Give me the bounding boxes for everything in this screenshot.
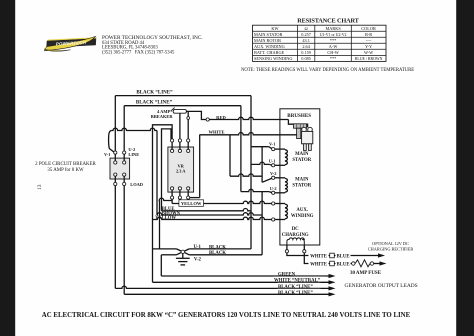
wire black line 2 right drop to U-2 node xyxy=(240,106,242,192)
node generator aux 2 xyxy=(272,218,275,221)
svg-text:A-W: A-W xyxy=(329,44,339,49)
connector VR top pins xyxy=(171,139,190,153)
wire sensing horizontal xyxy=(112,128,157,130)
svg-text:STATOR: STATOR xyxy=(292,158,311,163)
svg-text:BLACK “LINE”: BLACK “LINE” xyxy=(136,90,173,96)
company name line xyxy=(102,35,203,41)
svg-text:0.257: 0.257 xyxy=(301,32,312,37)
label YELLOW lower xyxy=(155,216,176,221)
svg-text:----: ---- xyxy=(366,38,372,43)
resistance chart note xyxy=(241,68,414,73)
label 4 AMP BREAKER xyxy=(151,109,174,119)
label OPTIONAL 12V DC xyxy=(372,241,409,246)
node breaker inner bottom left xyxy=(114,173,117,176)
label V-1 generator xyxy=(269,141,276,146)
svg-text:SENSING WINDING: SENSING WINDING xyxy=(254,56,292,61)
wire VR pin2 riser to breaker xyxy=(179,113,181,139)
wire black output 2 xyxy=(124,292,335,296)
svg-text:NOTE: THESE READINGS WILL VARY: NOTE: THESE READINGS WILL VARY DEPENDING… xyxy=(241,68,414,73)
ground symbol xyxy=(176,254,190,265)
svg-text:***: *** xyxy=(330,56,336,61)
node generator U-2 xyxy=(272,191,275,194)
regulator VR body xyxy=(168,147,194,192)
label 35 AMP for 8 KW xyxy=(47,168,84,173)
wire RED drop to brush ball xyxy=(288,120,307,128)
label MAIN STATOR 1 xyxy=(292,152,311,163)
svg-text:U-1: U-1 xyxy=(269,158,276,163)
node dc charge terminal 2 xyxy=(303,245,306,253)
connector VR bottom pins xyxy=(171,187,190,199)
svg-text:2.3 A: 2.3 A xyxy=(176,169,186,174)
wire black line 1 left drop to breaker V-1 xyxy=(114,96,116,151)
logo POWERTECH xyxy=(44,36,97,51)
node breaker line U-2 xyxy=(123,151,126,154)
address line 1 xyxy=(102,41,145,46)
svg-text:V-2: V-2 xyxy=(270,171,277,176)
svg-text:GENERATOR OUTPUT LEADS: GENERATOR OUTPUT LEADS xyxy=(345,283,418,289)
wire white neutral output xyxy=(153,280,336,284)
label BLUE xyxy=(162,207,175,212)
svg-text:30 AMP FUSE: 30 AMP FUSE xyxy=(350,271,382,276)
wire breaker to red terminal xyxy=(186,111,206,119)
breaker CB1 stems bottom xyxy=(115,176,124,182)
winding dc charging xyxy=(287,238,304,245)
label BRUSHES xyxy=(287,113,311,119)
wire black line 1 load drop xyxy=(114,186,116,289)
svg-text:V-1: V-1 xyxy=(104,152,111,157)
svg-text:LINE: LINE xyxy=(128,152,139,157)
resistance chart title xyxy=(297,17,359,24)
wire blue row1 with arrow xyxy=(334,253,385,257)
label WHITE xyxy=(208,130,224,135)
label GREEN xyxy=(278,270,297,277)
label MAIN STATOR 2 xyxy=(292,177,311,188)
label GENERATOR OUTPUT LEADS xyxy=(345,283,418,289)
right black border bar xyxy=(456,0,474,336)
svg-text:WHITE: WHITE xyxy=(208,130,224,135)
node breaker CB2 output terminal xyxy=(187,117,190,120)
node red terminal xyxy=(206,118,209,121)
svg-text:MARKS: MARKS xyxy=(325,26,341,31)
svg-text:35 AMP for 8 KW: 35 AMP for 8 KW xyxy=(47,168,84,173)
wire WHITE riser from VR pin3 loop xyxy=(199,135,201,198)
svg-text:KW: KW xyxy=(271,26,279,31)
node breaker line V-1 xyxy=(114,151,117,154)
wire yellow bus 1 horizontal xyxy=(172,201,271,203)
left black border bar xyxy=(0,0,15,336)
svg-text:AC ELECTRICAL CIRCUIT FOR 8KW: AC ELECTRICAL CIRCUIT FOR 8KW “C” GENERA… xyxy=(42,312,411,319)
wire sensing curve from breaker V-1 xyxy=(109,131,115,153)
wire black output 1 xyxy=(115,286,335,290)
svg-text:WHITE: WHITE xyxy=(310,262,327,267)
node breaker load right xyxy=(123,182,126,185)
wire V-2 horizontal xyxy=(230,174,262,176)
svg-text:MAIN STATOR: MAIN STATOR xyxy=(254,32,282,37)
label U-2 generator xyxy=(270,186,277,191)
wire sensing drop to brown bus xyxy=(156,131,158,216)
svg-text:CH-W: CH-W xyxy=(327,50,339,55)
svg-text:WHITE: WHITE xyxy=(310,254,327,259)
svg-text:LOAD: LOAD xyxy=(130,182,143,187)
svg-text:BLACK “LINE”: BLACK “LINE” xyxy=(136,100,173,106)
connector square row1 xyxy=(330,253,335,258)
wire blue bus horizontal xyxy=(162,209,252,211)
wire WHITE to brushes xyxy=(200,133,297,135)
svg-text:U-2: U-2 xyxy=(270,186,277,191)
wire V-1 branch to generator xyxy=(251,147,272,149)
svg-text:BATT. CHARGE: BATT. CHARGE xyxy=(254,50,285,55)
svg-text:BLUE: BLUE xyxy=(336,262,349,267)
wire V-2 elbow and diagonal xyxy=(262,147,272,183)
node generator U-1 xyxy=(272,164,275,167)
label AUX WINDING xyxy=(291,208,314,219)
label BLACK lower xyxy=(209,251,226,256)
wire VR pin3 to white riser xyxy=(190,197,200,199)
svg-text:BRUSHES: BRUSHES xyxy=(287,113,311,119)
svg-text:AUX.: AUX. xyxy=(296,208,308,213)
wire yellow bus 2 horizontal xyxy=(153,217,272,219)
caption xyxy=(42,312,411,319)
node ground junction xyxy=(181,250,184,253)
wire VR pin1 loop xyxy=(153,125,173,282)
label LOAD xyxy=(130,182,143,187)
node generator V-2 xyxy=(272,176,275,179)
svg-text:RESISTANCE CHART: RESISTANCE CHART xyxy=(297,17,359,24)
brush holder hatched T xyxy=(294,124,307,139)
wire yellow bus 1 from VR pin1 xyxy=(171,199,173,203)
svg-text:(352) 365-2777 FAX (352) 787: (352) 365-2777 FAX (352) 787-5345 xyxy=(102,50,175,55)
svg-text:DC: DC xyxy=(292,227,299,232)
label WHITE row1 xyxy=(309,252,329,260)
label U-2 LINE at breaker xyxy=(128,147,139,157)
wire pin stub left xyxy=(159,198,172,200)
svg-text:WINDING: WINDING xyxy=(291,214,314,219)
wire U-1 black upper xyxy=(153,249,252,251)
svg-text:2.64: 2.64 xyxy=(302,44,310,49)
wire black line 2 load drop xyxy=(123,186,125,295)
wire RED to brushes xyxy=(209,117,288,119)
wire dc terminal 1 to rectifier row xyxy=(287,253,330,256)
brush block with ball terminals xyxy=(302,127,313,150)
label VR 2.3 A xyxy=(176,164,186,174)
winding main stator 2 xyxy=(275,178,288,193)
svg-text:BREAKER: BREAKER xyxy=(151,114,174,119)
winding aux xyxy=(275,204,288,220)
svg-text:YELLOW: YELLOW xyxy=(181,201,202,206)
svg-text:MAIN: MAIN xyxy=(295,152,309,157)
wire dc terminal 2 to fuse row xyxy=(304,253,329,264)
label V-1 at breaker xyxy=(104,152,111,157)
wire black line 2 left drop to breaker U-2 xyxy=(123,106,125,151)
wire green output xyxy=(161,274,335,278)
wire black line 1 horizontal xyxy=(115,95,251,97)
svg-text:0.159: 0.159 xyxy=(301,50,311,55)
svg-text:AUX. WINDING: AUX. WINDING xyxy=(254,44,285,49)
svg-text:0.085: 0.085 xyxy=(301,56,311,61)
svg-text:13: 13 xyxy=(37,184,43,190)
svg-text:43.1: 43.1 xyxy=(302,38,310,43)
node dc charge terminal 1 xyxy=(285,245,288,253)
resistance chart table xyxy=(253,25,387,61)
label U-1 generator xyxy=(269,158,276,163)
label BROWN xyxy=(162,212,181,217)
svg-text:BLUE / BROWN: BLUE / BROWN xyxy=(355,57,383,61)
wire VR pin1 second loop xyxy=(162,129,172,211)
label 2 POLE CIRCUIT BREAKER xyxy=(35,162,96,167)
label RED xyxy=(216,115,226,120)
generator box xyxy=(280,109,320,245)
fuse 30 amp xyxy=(352,260,374,267)
svg-text:COLOR: COLOR xyxy=(361,26,376,31)
svg-text:BLUE: BLUE xyxy=(336,254,349,259)
svg-text:***: *** xyxy=(330,38,336,43)
svg-text:W-W: W-W xyxy=(364,50,374,55)
svg-text:BLACK: BLACK xyxy=(209,245,226,250)
label CHARGING RECTIFIER xyxy=(368,247,414,252)
node generator V-1 xyxy=(272,148,275,151)
node generator aux 1 xyxy=(272,202,275,205)
label DC CHARGING xyxy=(282,227,309,238)
breaker CB2 lever tick xyxy=(171,108,175,112)
svg-text:CHARGING: CHARGING xyxy=(282,233,309,238)
wire VR pin3 riser to breaker xyxy=(187,111,189,139)
svg-text:U1-V1 or U2-V2: U1-V1 or U2-V2 xyxy=(320,33,347,37)
wire fuse to arrow xyxy=(374,261,387,265)
wire U-1 feed drop xyxy=(250,147,252,249)
label BLACK LINE top xyxy=(136,90,173,96)
label BLACK LINE output 2 xyxy=(278,289,321,296)
label U-1 bottom xyxy=(193,245,201,250)
label BLUE row2 xyxy=(334,260,351,268)
address line 2 xyxy=(102,46,158,51)
label V-2 bottom xyxy=(194,258,202,263)
svg-text:OPTIONAL 12V DC: OPTIONAL 12V DC xyxy=(372,241,409,246)
node breaker inner top left xyxy=(114,161,117,164)
label BLACK LINE output 1 xyxy=(278,283,321,290)
svg-text:B-R: B-R xyxy=(365,32,372,37)
label V-2 generator xyxy=(270,171,277,176)
svg-text:MAIN ROTOR: MAIN ROTOR xyxy=(254,38,281,43)
connector square row2 xyxy=(330,261,335,266)
wire pin stub drop xyxy=(159,201,161,249)
label WHITE NEUTRAL xyxy=(274,277,326,284)
wire yellow bus 1 from VR pin2 xyxy=(179,199,181,203)
node breaker inner top right xyxy=(123,161,126,164)
label BLACK LINE second xyxy=(136,100,173,106)
node breaker load left xyxy=(114,182,117,185)
label YELLOW boxed xyxy=(179,200,204,207)
svg-text:V-2: V-2 xyxy=(194,258,202,263)
label WHITE row2 xyxy=(309,260,329,268)
wire brown bus horizontal xyxy=(157,213,262,215)
breaker CB2 4-amp body xyxy=(173,110,186,114)
wire U-1 horizontal to generator xyxy=(251,162,272,165)
svg-text:2 POLE CIRCUIT BREAKER: 2 POLE CIRCUIT BREAKER xyxy=(35,162,96,167)
page number 13 xyxy=(37,184,43,190)
wire black line 2 horizontal xyxy=(124,105,241,107)
wire U-2 horizontal to generator xyxy=(241,189,272,192)
label BLUE row1 xyxy=(336,252,351,260)
wire green drop xyxy=(160,255,162,276)
winding main stator 1 xyxy=(275,149,288,165)
breaker CB1 stems top xyxy=(115,154,124,161)
wire V-2 black lower xyxy=(161,253,262,255)
svg-text:MAIN: MAIN xyxy=(295,177,309,182)
svg-text:CHARGING RECTIFIER: CHARGING RECTIFIER xyxy=(368,247,414,252)
wire V-2 feed drop xyxy=(229,135,231,177)
svg-text:Y-Y: Y-Y xyxy=(365,44,372,49)
svg-text:Ω: Ω xyxy=(304,26,307,31)
svg-text:V-1: V-1 xyxy=(269,141,276,146)
wire sensing drop right xyxy=(261,192,263,255)
address line 3 xyxy=(102,50,175,55)
breaker CB1 2-pole body xyxy=(110,158,130,179)
svg-text:BLACK: BLACK xyxy=(209,251,226,256)
wire black line 1 right drop to V-1 node xyxy=(250,96,252,147)
node breaker inner bottom right xyxy=(123,173,126,176)
svg-text:STATOR: STATOR xyxy=(292,183,311,188)
label 30 AMP FUSE xyxy=(350,271,382,276)
label BLACK upper xyxy=(209,245,226,250)
